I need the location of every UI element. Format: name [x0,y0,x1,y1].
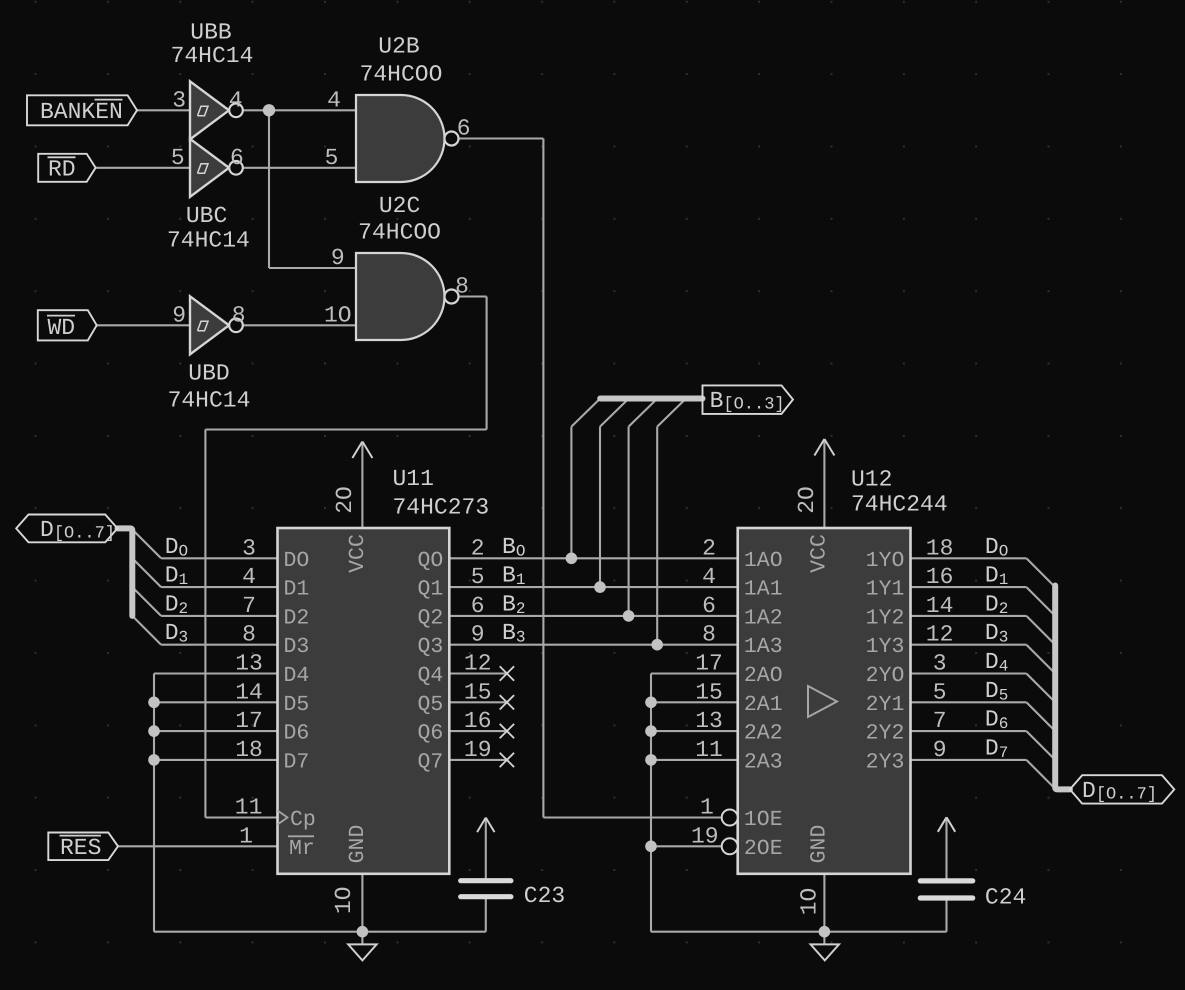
svg-text:74HCOO: 74HCOO [360,62,443,88]
svg-text:4: 4 [327,87,341,113]
svg-text:74HC14: 74HC14 [171,43,254,69]
svg-text:9: 9 [331,245,345,271]
svg-text:18: 18 [926,535,954,561]
svg-text:9: 9 [933,737,947,763]
svg-text:UBB: UBB [190,20,231,46]
svg-text:1O: 1O [331,886,357,914]
svg-text:13: 13 [695,708,723,734]
svg-text:2Y1: 2Y1 [866,693,905,717]
svg-text:9: 9 [172,302,186,328]
svg-text:2YO: 2YO [866,664,905,688]
svg-text:5: 5 [325,145,339,171]
svg-text:5: 5 [171,145,185,171]
svg-text:8: 8 [455,274,469,300]
svg-text:1Y3: 1Y3 [866,635,905,659]
svg-text:16: 16 [926,564,954,590]
svg-text:C23: C23 [524,883,565,909]
svg-text:1: 1 [239,823,253,849]
svg-text:13: 13 [235,651,263,677]
svg-text:19: 19 [691,823,719,849]
svg-text:Q7: Q7 [417,750,443,774]
svg-text:2Y3: 2Y3 [866,750,905,774]
svg-text:74HC14: 74HC14 [167,227,250,253]
svg-text:17: 17 [695,651,723,677]
svg-text:WD: WD [48,315,76,341]
svg-text:D5: D5 [284,693,310,717]
svg-text:2A3: 2A3 [744,750,783,774]
svg-text:14: 14 [926,593,954,619]
svg-text:U12: U12 [851,467,892,493]
svg-text:3: 3 [933,651,947,677]
svg-text:GND: GND [346,825,370,864]
svg-text:2AO: 2AO [744,664,783,688]
svg-text:8: 8 [702,622,716,648]
svg-text:D1: D1 [284,578,310,602]
svg-text:GND: GND [808,825,832,864]
svg-text:Q3: Q3 [417,635,443,659]
svg-text:U11: U11 [393,466,434,492]
svg-text:1O: 1O [797,888,823,916]
svg-text:2A2: 2A2 [744,722,783,746]
svg-text:UBD: UBD [188,361,229,387]
svg-text:VCC: VCC [808,534,832,573]
svg-text:11: 11 [235,795,263,821]
svg-text:D3: D3 [284,635,310,659]
svg-text:QO: QO [417,549,443,573]
svg-text:2O: 2O [332,486,358,514]
svg-text:12: 12 [926,622,954,648]
svg-text:74HC273: 74HC273 [393,495,490,521]
svg-text:6: 6 [230,145,244,171]
svg-text:D6: D6 [284,722,310,746]
svg-text:2O: 2O [794,486,820,514]
svg-text:1: 1 [700,795,714,821]
svg-text:15: 15 [695,679,723,705]
svg-text:4: 4 [229,87,243,113]
svg-text:Q4: Q4 [417,664,443,688]
svg-text:1YO: 1YO [866,549,905,573]
svg-text:Q2: Q2 [417,606,443,630]
svg-text:Q1: Q1 [417,578,443,602]
svg-text:2Y2: 2Y2 [866,722,905,746]
svg-text:1A1: 1A1 [744,578,783,602]
svg-text:1OE: 1OE [744,808,783,832]
svg-text:7: 7 [933,708,947,734]
svg-text:2: 2 [471,535,485,561]
svg-text:DO: DO [284,549,310,573]
svg-text:1A2: 1A2 [744,606,783,630]
svg-text:7: 7 [242,593,256,619]
svg-text:17: 17 [235,708,263,734]
svg-text:4: 4 [702,564,716,590]
svg-text:D7: D7 [284,750,310,774]
svg-text:12: 12 [464,651,492,677]
svg-text:3: 3 [172,87,186,113]
svg-text:Mr: Mr [289,837,315,861]
svg-text:15: 15 [464,679,492,705]
svg-text:VCC: VCC [346,534,370,573]
svg-text:16: 16 [464,708,492,734]
svg-text:4: 4 [242,564,256,590]
svg-text:U2C: U2C [379,193,420,219]
svg-text:18: 18 [235,737,263,763]
svg-text:1AO: 1AO [744,549,783,573]
svg-text:Q6: Q6 [417,722,443,746]
svg-text:1O: 1O [324,302,352,328]
svg-text:Cp: Cp [290,808,316,832]
svg-text:2OE: 2OE [744,837,783,861]
svg-text:C24: C24 [985,885,1026,911]
svg-text:2: 2 [702,535,716,561]
svg-text:8: 8 [242,622,256,648]
svg-text:5: 5 [471,564,485,590]
svg-text:74HC244: 74HC244 [851,492,948,518]
svg-text:19: 19 [464,737,492,763]
svg-text:74HCOO: 74HCOO [358,219,441,245]
svg-text:14: 14 [235,679,263,705]
svg-text:9: 9 [471,622,485,648]
svg-text:RES: RES [60,835,101,861]
svg-text:11: 11 [695,737,723,763]
svg-text:1A3: 1A3 [744,635,783,659]
svg-text:RD: RD [48,156,76,182]
svg-text:BANKEN: BANKEN [40,99,123,125]
svg-text:2A1: 2A1 [744,693,783,717]
svg-text:3: 3 [242,535,256,561]
svg-text:Q5: Q5 [417,693,443,717]
svg-text:U2B: U2B [378,34,419,60]
svg-text:UBC: UBC [186,203,227,229]
svg-text:1Y2: 1Y2 [866,606,905,630]
svg-text:1Y1: 1Y1 [866,578,905,602]
svg-text:74HC14: 74HC14 [168,388,251,414]
svg-text:D4: D4 [284,664,310,688]
svg-text:6: 6 [471,593,485,619]
svg-text:8: 8 [232,302,246,328]
svg-text:D2: D2 [284,606,310,630]
svg-text:6: 6 [457,116,471,142]
svg-text:6: 6 [702,593,716,619]
svg-text:5: 5 [933,679,947,705]
